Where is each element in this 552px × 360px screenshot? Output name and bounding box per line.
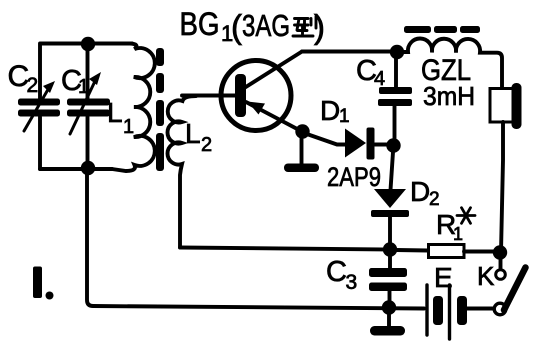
svg-text:BG: BG: [180, 6, 220, 42]
wire node to R1: [396, 248, 428, 252]
label I.: [33, 267, 54, 300]
svg-text:3: 3: [346, 271, 358, 294]
capacitor C1: [67, 72, 110, 134]
capacitor C2: [18, 81, 60, 131]
wire collector to top: [302, 50, 398, 54]
wire mid rail left: [180, 248, 390, 250]
node collector/C4/GZL: [390, 45, 404, 59]
svg-text:3AG: 3AG: [242, 8, 290, 43]
svg-text:2AP9: 2AP9: [327, 162, 381, 192]
wire D1 to node: [375, 143, 392, 147]
diode D1: [345, 128, 375, 160]
wire tank bottom: [40, 167, 112, 171]
wire emitter ground stem: [300, 135, 304, 164]
node emitter junction: [295, 124, 309, 138]
svg-text:2: 2: [429, 189, 440, 210]
svg-text:K: K: [477, 261, 495, 291]
inductor L1: [112, 44, 155, 172]
diode D2: [371, 189, 409, 243]
ground (C3): [370, 326, 405, 336]
switch K: [494, 253, 525, 315]
svg-text:E: E: [434, 262, 453, 293]
svg-text:3mH: 3mH: [423, 81, 475, 111]
inductor GZL: [397, 39, 502, 89]
ground (emitter): [284, 164, 319, 173]
node D2/C3/R1: [383, 242, 397, 256]
label BG1(3AG型): [180, 6, 326, 46]
svg-text:1: 1: [453, 224, 463, 244]
node C3 bottom: [382, 300, 396, 314]
ferrite core (dashed): [156, 48, 164, 171]
wire C3 ground stem: [387, 311, 391, 327]
wire R1 to right node: [464, 250, 497, 254]
svg-text:D: D: [320, 95, 340, 126]
node D1/C4: [386, 138, 400, 152]
svg-text:1: 1: [339, 106, 350, 127]
wire junction to D1: [304, 133, 346, 145]
capacitor C3: [369, 255, 407, 303]
resistor R1: [429, 245, 465, 258]
svg-text:C: C: [326, 256, 347, 288]
svg-text:1: 1: [123, 116, 134, 138]
wire left down rail: [87, 168, 424, 309]
capacitor C4: [378, 52, 412, 146]
node right rail: [493, 245, 507, 259]
svg-text:2: 2: [27, 74, 39, 97]
wire C2 branch: [38, 44, 42, 170]
battery E: [427, 285, 467, 339]
wire D1 node down to D2: [391, 152, 394, 190]
svg-text:4: 4: [374, 68, 385, 90]
earphone: [490, 83, 522, 129]
svg-text:1: 1: [78, 76, 89, 98]
node tank top: [81, 37, 95, 51]
svg-text:2: 2: [201, 134, 212, 156]
wire tank top: [41, 42, 132, 46]
wire battery to switch: [467, 307, 493, 311]
svg-text:(: (: [231, 8, 242, 45]
svg-text:L: L: [185, 118, 201, 149]
transistor BG1: [221, 52, 302, 132]
inductor L2: [168, 96, 196, 248]
svg-text:D: D: [410, 176, 430, 207]
core of GZL (dashed): [404, 26, 480, 33]
wire base: [182, 94, 238, 98]
wire C1 branch: [86, 44, 90, 169]
svg-text:L: L: [107, 97, 123, 128]
node tank bottom: [81, 161, 95, 175]
wire earphone down: [501, 122, 503, 252]
